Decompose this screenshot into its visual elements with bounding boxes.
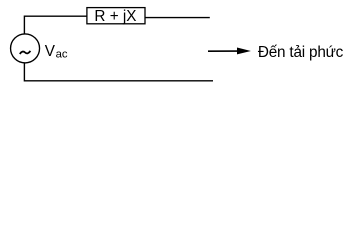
wire from box to right end [145,17,210,19]
impedance box R + jX [87,8,145,24]
arrow to load shaft [208,50,240,52]
svg-text:V: V [45,43,56,60]
svg-text:R + jX: R + jX [94,8,136,25]
svg-text:Đến tải phức: Đến tải phức [258,44,344,61]
wire from source top to impedance box [24,16,86,34]
wire from source bottom to right end [24,62,213,80]
svg-text:ac: ac [56,49,68,61]
AC source V1 circle [11,34,40,63]
arrow to load head [237,48,251,55]
AC source sine symbol [20,51,31,54]
